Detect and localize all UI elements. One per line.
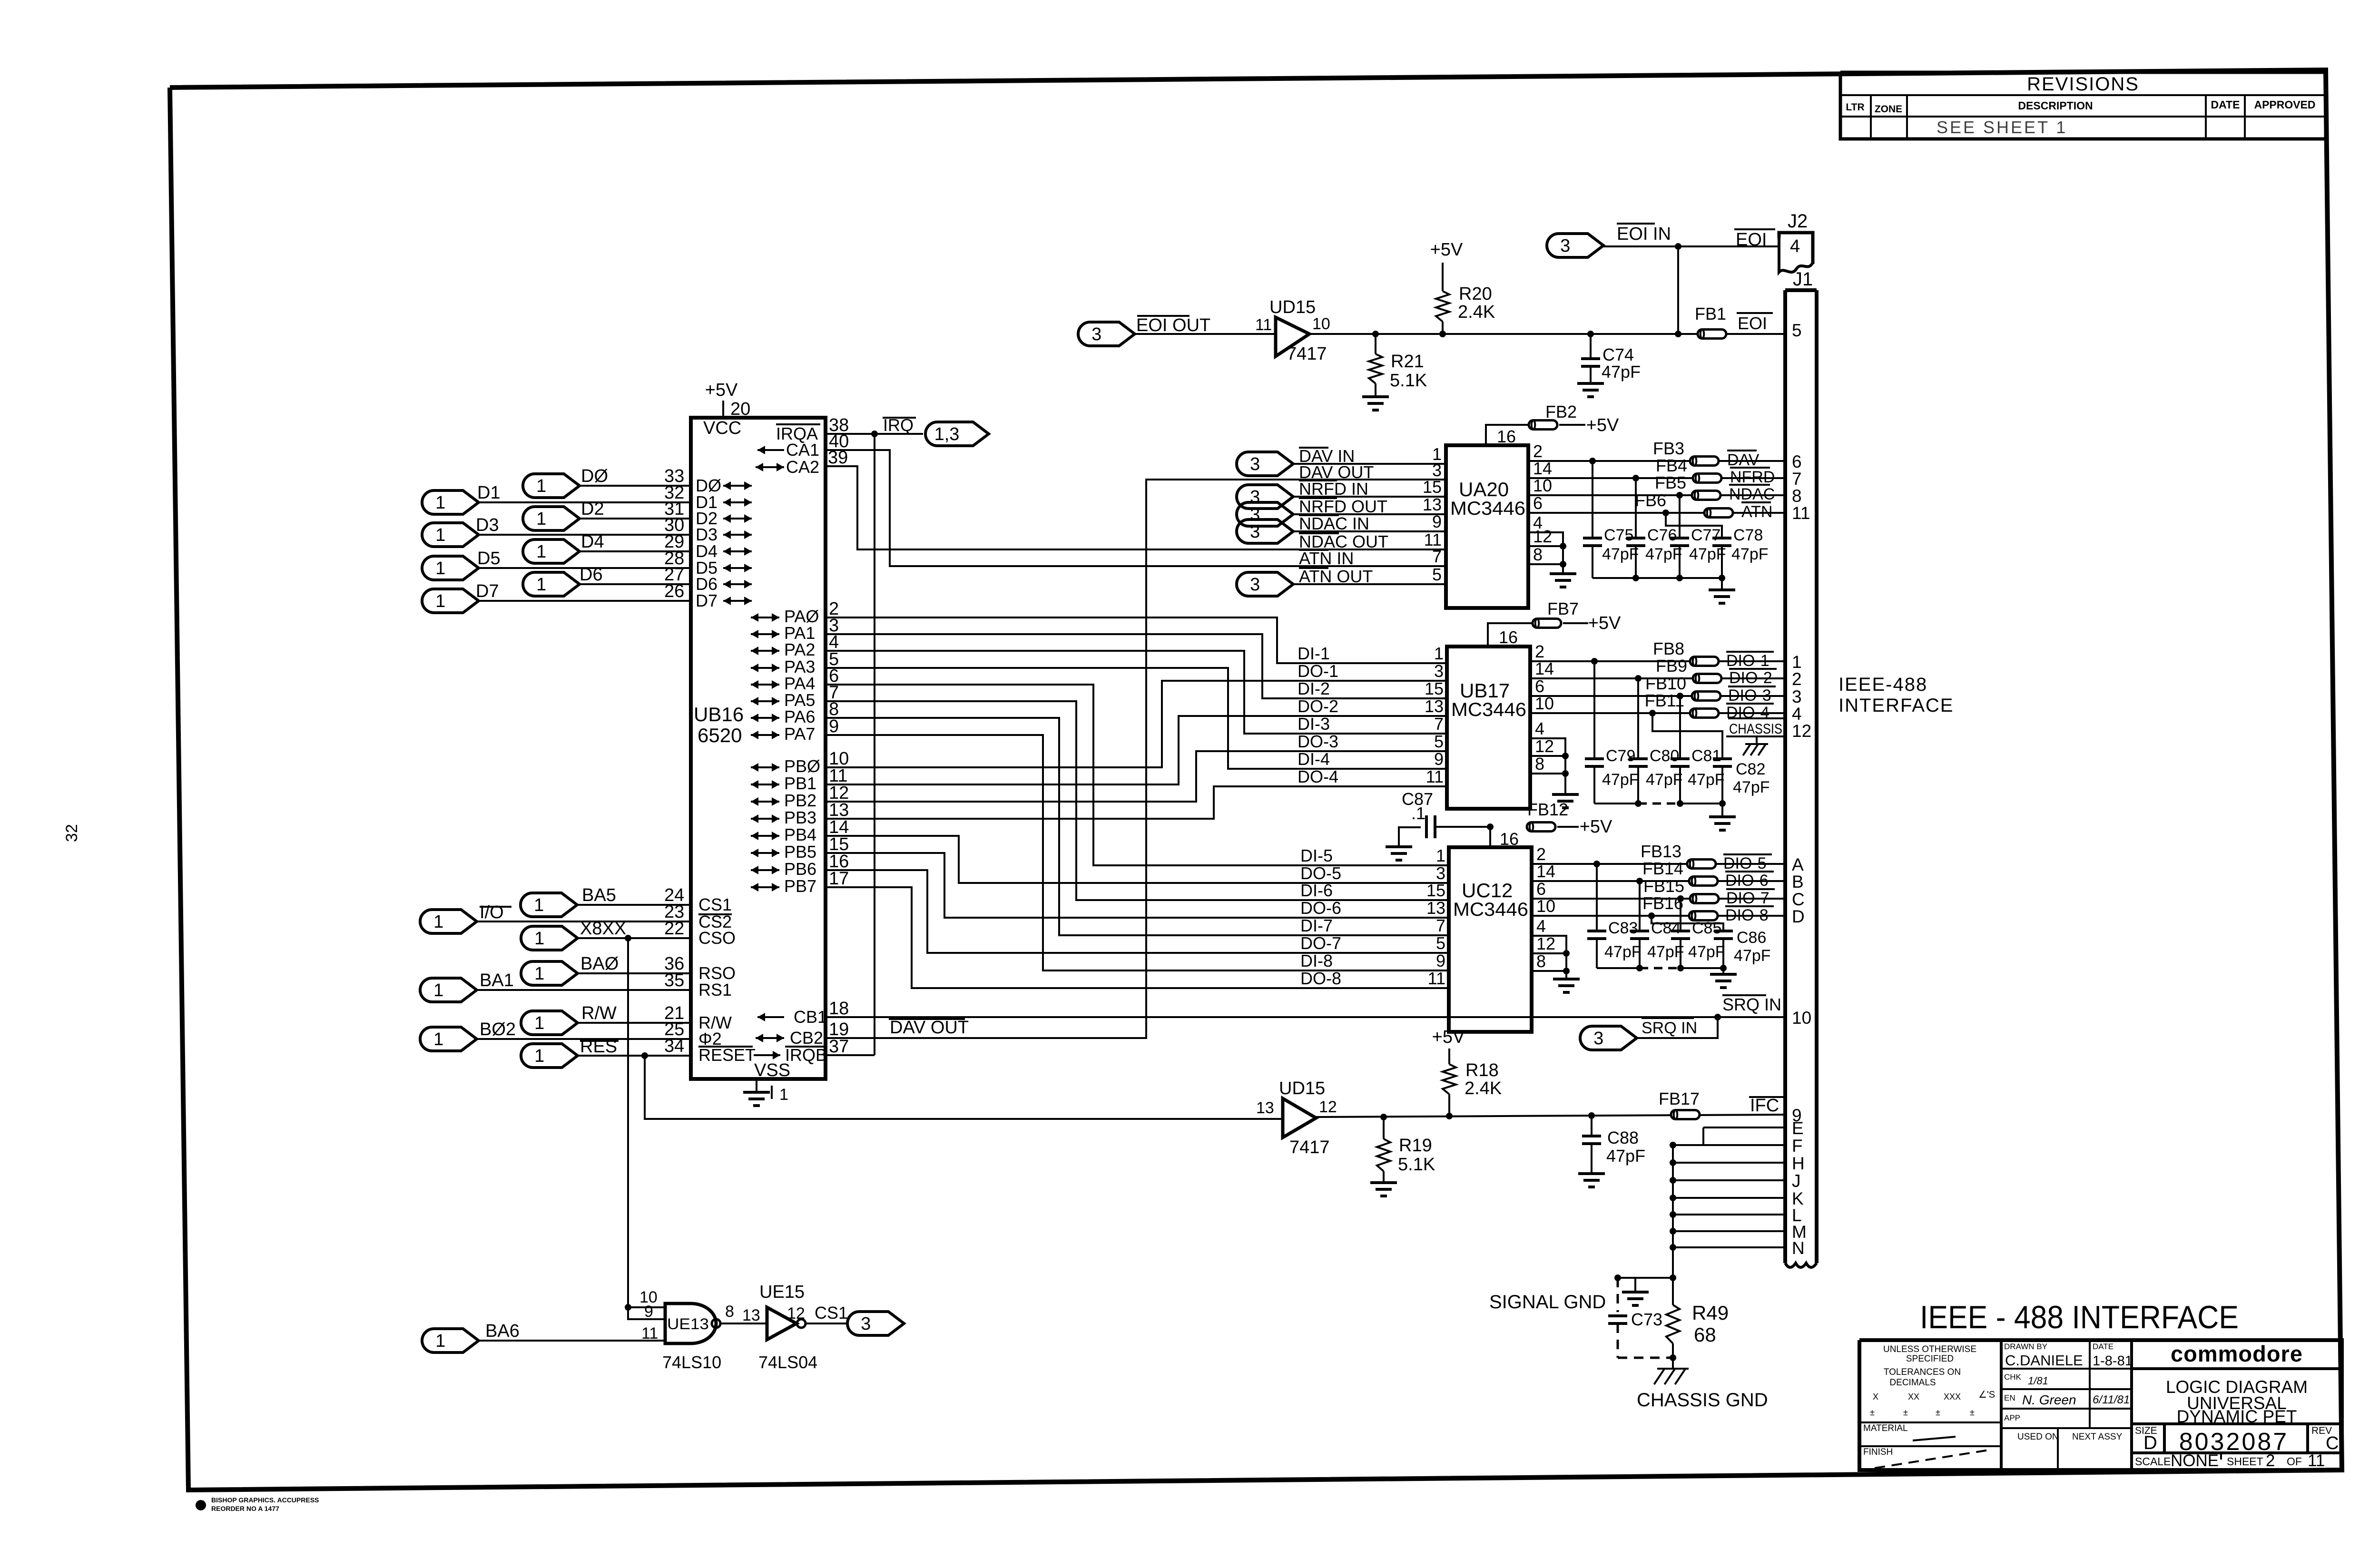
svg-text:IEEE-488: IEEE-488 — [1838, 674, 1927, 695]
svg-text:CSO: CSO — [698, 928, 736, 948]
svg-text:20: 20 — [730, 399, 750, 419]
NRFD OUT label — [1299, 497, 1337, 499]
wire X8XX drop to UE13 — [628, 938, 665, 1319]
CB2 port label — [756, 1037, 784, 1039]
capacitor C75 — [1583, 537, 1602, 539]
wire I/O CS2 — [477, 921, 691, 922]
svg-text:5: 5 — [1792, 321, 1802, 340]
C73 dashed lower — [1617, 1323, 1619, 1358]
svg-text:FB9: FB9 — [1656, 656, 1687, 676]
svg-text:2.4K: 2.4K — [1458, 302, 1495, 322]
svg-text:5.1K: 5.1K — [1390, 371, 1427, 391]
svg-text:PA7: PA7 — [784, 724, 815, 744]
svg-text:UB17: UB17 — [1460, 679, 1510, 702]
buffer UD15b triangle — [1283, 1098, 1316, 1137]
ferrite bead FB12 — [1527, 823, 1555, 832]
svg-text:3: 3 — [1792, 687, 1802, 706]
EOI IN label — [1617, 223, 1655, 225]
wire PB7 to DO-8 — [826, 887, 1449, 988]
svg-text:3: 3 — [861, 1314, 871, 1334]
DØ wire — [580, 485, 691, 487]
rev cell — [2306, 1424, 2309, 1453]
svg-text:3: 3 — [1560, 236, 1570, 256]
svg-text:DI-3: DI-3 — [1298, 714, 1330, 734]
tag 3 ATN OUT — [1237, 572, 1293, 596]
svg-text:±: ± — [1970, 1408, 1975, 1417]
wire EOI IN to J2 — [1603, 245, 1779, 247]
wire C75-C78 gnd bus — [1593, 577, 1722, 579]
ground C82 bus — [1709, 815, 1736, 818]
svg-text:MC3446: MC3446 — [1453, 899, 1528, 920]
svg-text:1: 1 — [536, 509, 546, 529]
ground UC12 — [1553, 978, 1580, 980]
NDAC IN label — [1299, 514, 1339, 516]
svg-text:UD15: UD15 — [1279, 1078, 1325, 1098]
PA2 port label — [751, 650, 779, 652]
svg-text:FB6: FB6 — [1635, 490, 1666, 510]
tag 3 NRFD IN — [1237, 485, 1293, 509]
svg-text:DI-4: DI-4 — [1298, 749, 1330, 769]
capacitor C88 — [1582, 1135, 1601, 1137]
svg-text:C74: C74 — [1602, 345, 1634, 364]
node cap bus junction — [1719, 800, 1726, 807]
svg-text:ATN IN: ATN IN — [1299, 549, 1354, 568]
wire BA0 RS0 — [578, 972, 691, 974]
wire C86 lower stem — [1722, 939, 1724, 968]
svg-text:+5V: +5V — [705, 380, 738, 400]
node R18 junction — [1446, 1113, 1453, 1119]
ferrite bead FB13 — [1687, 860, 1716, 869]
wire IRQB stub — [826, 1054, 875, 1056]
svg-text:DIO-3: DIO-3 — [1728, 686, 1771, 705]
wire UB17 pin to J1 DIO-1 — [1530, 660, 1785, 662]
svg-text:EN: EN — [2004, 1393, 2015, 1402]
svg-text:22: 22 — [664, 919, 684, 939]
svg-text:PB2: PB2 — [784, 791, 816, 810]
IFC label — [1749, 1096, 1785, 1098]
svg-text:DO-1: DO-1 — [1298, 661, 1338, 681]
tag 3 EOI OUT — [1078, 322, 1135, 346]
svg-text:CB1: CB1 — [794, 1007, 827, 1027]
svg-text:8: 8 — [1535, 754, 1544, 774]
IC UC12 box — [1449, 847, 1532, 1032]
EOI label at J1 pin5 — [1737, 312, 1773, 314]
PA4 port label — [751, 684, 779, 686]
wire UB17 pin8 — [1530, 773, 1565, 774]
svg-text:FB8: FB8 — [1653, 639, 1684, 658]
svg-text:3: 3 — [1593, 1029, 1603, 1049]
DIO-8 label — [1725, 905, 1774, 907]
svg-text:CS1: CS1 — [815, 1303, 848, 1323]
wire gnd bus row — [1673, 1179, 1785, 1181]
node UC12 pin12 — [1563, 950, 1570, 957]
svg-text:DAV OUT: DAV OUT — [890, 1018, 969, 1038]
resistor R20 — [1436, 291, 1449, 322]
wire C88 to gnd — [1591, 1144, 1593, 1174]
svg-text:11: 11 — [1792, 503, 1810, 523]
svg-text:MATERIAL: MATERIAL — [1863, 1423, 1908, 1433]
wire NRFD OUT — [1293, 513, 1446, 515]
svg-text:REVISIONS: REVISIONS — [2027, 74, 2139, 95]
wire R19 to gnd — [1383, 1171, 1385, 1183]
node UE13 pin10 junction — [625, 1304, 631, 1311]
svg-text:FB14: FB14 — [1642, 859, 1683, 878]
wire C86 route — [1652, 916, 1723, 931]
svg-text:D: D — [1792, 907, 1805, 926]
CA1 label — [757, 449, 784, 451]
svg-text:DO-5: DO-5 — [1300, 863, 1341, 883]
wire R/W — [578, 1022, 691, 1024]
wire PB3 to DO-4 — [826, 786, 1447, 819]
mid row2 — [2001, 1388, 2132, 1390]
wire C75 lower stem — [1592, 546, 1593, 578]
PA7 port label — [751, 734, 779, 736]
svg-text:PB3: PB3 — [784, 808, 816, 827]
RES label — [580, 1040, 619, 1042]
ferrite bead FB5 — [1692, 491, 1720, 500]
wire UC12 pin12 — [1532, 952, 1566, 954]
svg-text:FB7: FB7 — [1547, 599, 1579, 618]
material dash — [1913, 1437, 1956, 1441]
DIO-7 label — [1726, 888, 1775, 890]
DAV IN label — [1299, 447, 1328, 449]
svg-text:J2: J2 — [1788, 211, 1808, 232]
capacitor C81 — [1671, 757, 1690, 760]
svg-text:+5V: +5V — [1588, 613, 1621, 633]
svg-text:1: 1 — [435, 525, 445, 545]
svg-text:±: ± — [1936, 1408, 1940, 1417]
svg-text:FB11: FB11 — [1645, 691, 1684, 710]
capacitor C86 — [1714, 930, 1733, 932]
svg-text:NDAC: NDAC — [1729, 485, 1775, 503]
wire PBØ to DO-1 — [826, 681, 1447, 767]
svg-text:6520: 6520 — [698, 724, 742, 746]
wire C75 stem — [1592, 461, 1593, 538]
svg-text:MC3446: MC3446 — [1451, 699, 1526, 720]
svg-text:47pF: 47pF — [1602, 362, 1641, 382]
wire PB4 to DO-5 — [826, 836, 1449, 883]
DIO-5 label — [1723, 853, 1772, 855]
wire pin38 IRQ — [826, 433, 923, 435]
DAV OUT label at CB2 — [889, 1018, 965, 1020]
PB3 port label — [751, 818, 779, 820]
title block v1 — [2000, 1340, 2003, 1470]
NDAC OUT label — [1299, 532, 1339, 534]
wire UE15 out — [806, 1323, 848, 1324]
capacitor C73 dashed stem — [1617, 1278, 1619, 1312]
wire CA1 — [826, 450, 1446, 566]
svg-text:D2: D2 — [581, 499, 604, 519]
node C76 junction — [1632, 475, 1639, 481]
node EOI vertical junction — [1675, 331, 1681, 337]
wire PA6 to DI-7 — [826, 718, 1449, 935]
svg-text:J: J — [1792, 1171, 1801, 1191]
tag 1 BA6 — [422, 1329, 479, 1352]
tag 1 DØ input — [523, 474, 580, 498]
D6 wire — [580, 583, 691, 585]
svg-text:UE15: UE15 — [759, 1282, 805, 1302]
svg-text:1: 1 — [534, 929, 544, 949]
wire PA7 to DI-8 — [826, 735, 1449, 970]
connector J2 flag — [1779, 233, 1813, 264]
svg-text:11: 11 — [1426, 767, 1444, 786]
svg-text:C82: C82 — [1736, 760, 1765, 778]
node gnd bus bottom — [1670, 1274, 1676, 1281]
wire C87 right — [1435, 826, 1490, 828]
node R21 junction — [1372, 331, 1379, 337]
svg-text:1: 1 — [779, 1086, 788, 1104]
svg-text:PB1: PB1 — [784, 774, 816, 793]
node cap bus junction — [1719, 575, 1725, 581]
svg-text:1: 1 — [435, 591, 445, 611]
svg-text:47pF: 47pF — [1604, 943, 1642, 961]
svg-text:C81: C81 — [1691, 747, 1721, 765]
svg-text:ZONE: ZONE — [1875, 104, 1902, 115]
svg-text:BØ2: BØ2 — [480, 1019, 516, 1039]
DAV OUT label — [1299, 463, 1328, 465]
wire C85 lower stem — [1680, 939, 1681, 968]
wire +5V to R20 — [1442, 263, 1444, 291]
svg-text:47pF: 47pF — [1647, 943, 1684, 961]
svg-text:FB13: FB13 — [1641, 842, 1681, 861]
svg-text:5: 5 — [1432, 565, 1442, 584]
wire E stub — [1703, 1127, 1785, 1128]
node UB17 pin12 — [1562, 753, 1569, 759]
ground C78 bus — [1709, 588, 1735, 591]
capacitor C76 — [1626, 537, 1645, 539]
svg-text:NEXT ASSY: NEXT ASSY — [2072, 1432, 2123, 1442]
wire to chassis gnd — [1672, 1358, 1674, 1369]
svg-text:PA2: PA2 — [784, 640, 815, 659]
svg-text:USED ON: USED ON — [2017, 1432, 2059, 1442]
wire E row — [1673, 1127, 1703, 1145]
node C77 junction — [1676, 492, 1683, 499]
D3 wire — [479, 534, 691, 536]
svg-text:8: 8 — [1792, 486, 1802, 506]
svg-text:+5V: +5V — [1580, 817, 1612, 837]
svg-text:DO-3: DO-3 — [1298, 732, 1338, 751]
svg-text:1-8-81: 1-8-81 — [2093, 1353, 2133, 1369]
svg-text:APPROVED: APPROVED — [2254, 98, 2315, 111]
svg-text:7417: 7417 — [1287, 344, 1327, 364]
ferrite bead FB11 — [1690, 709, 1719, 718]
IRQA label — [776, 423, 820, 425]
ferrite bead FB17 — [1671, 1110, 1700, 1119]
wire C83 stem — [1596, 864, 1598, 931]
svg-text:47pF: 47pF — [1734, 947, 1771, 965]
svg-text:47pF: 47pF — [1689, 545, 1726, 563]
ferrite bead FB4 — [1693, 474, 1721, 483]
tag 1 RES — [521, 1044, 578, 1068]
revisions col DATE — [2205, 95, 2207, 139]
wire BA1 RS1 — [477, 989, 691, 991]
wire C76 lower stem — [1635, 546, 1637, 578]
svg-text:9: 9 — [1436, 951, 1445, 970]
svg-text:7: 7 — [1432, 547, 1442, 566]
node gnd bus — [1670, 1159, 1676, 1166]
svg-text:DATE: DATE — [2211, 98, 2240, 111]
svg-text:EOI: EOI — [1738, 314, 1767, 333]
svg-text:FB10: FB10 — [1645, 674, 1686, 693]
svg-text:8: 8 — [1533, 545, 1543, 564]
svg-text:NRFD IN: NRFD IN — [1299, 479, 1368, 499]
wire PA5 to DI-6 — [826, 701, 1449, 900]
svg-text:6: 6 — [1533, 493, 1543, 513]
svg-text:MC3446: MC3446 — [1450, 498, 1525, 519]
wire C81 stem — [1679, 696, 1681, 759]
svg-text:DYNAMIC PET: DYNAMIC PET — [2177, 1407, 2297, 1426]
tag 1 D3 input — [422, 523, 479, 547]
svg-text:FINISH: FINISH — [1863, 1447, 1893, 1457]
svg-text:D3: D3 — [476, 515, 499, 535]
svg-text:47pF: 47pF — [1606, 1146, 1645, 1166]
svg-text:XXX: XXX — [1944, 1392, 1961, 1401]
svg-text:6: 6 — [1792, 452, 1802, 471]
svg-text:DIO-8: DIO-8 — [1725, 906, 1769, 924]
resistor R49 — [1672, 1278, 1674, 1305]
node gnd bus — [1670, 1195, 1676, 1201]
capacitor C82 — [1713, 757, 1732, 760]
svg-text:FB5: FB5 — [1655, 473, 1686, 492]
wire +5V to VCC — [722, 401, 724, 418]
svg-text:BISHOP GRAPHICS. ACCUPRESS: BISHOP GRAPHICS. ACCUPRESS — [211, 1496, 319, 1504]
UB17 pin16 wire — [1488, 623, 1533, 647]
ferrite bead FB1 — [1698, 330, 1726, 339]
svg-text:DI-7: DI-7 — [1300, 916, 1333, 935]
svg-text:FB17: FB17 — [1659, 1089, 1700, 1108]
DIO-3 label — [1728, 686, 1776, 687]
tag 1 BA5 — [521, 893, 577, 917]
wire CA2 — [826, 466, 1446, 549]
svg-text:47pF: 47pF — [1733, 778, 1770, 796]
svg-text:RESET: RESET — [698, 1045, 756, 1065]
wire C88 stem — [1591, 1116, 1593, 1136]
wire C76 stem — [1635, 478, 1637, 538]
wire C84 stem — [1639, 881, 1641, 931]
svg-text:10: 10 — [1792, 1008, 1811, 1028]
svg-text:13: 13 — [742, 1306, 760, 1324]
svg-text:FB15: FB15 — [1643, 876, 1684, 896]
capacitor C80 — [1629, 757, 1648, 760]
svg-text:1: 1 — [536, 476, 546, 496]
svg-text:C86: C86 — [1737, 929, 1766, 947]
wire FB7 to +5V — [1563, 622, 1588, 624]
chassis symbol J1 — [1745, 743, 1768, 745]
svg-text:4: 4 — [1536, 916, 1546, 936]
CB1 port label — [757, 1016, 784, 1018]
wire C79-C82 gnd bus — [1594, 803, 1638, 804]
UE15 bubble — [797, 1319, 806, 1328]
node cap bus junction — [1677, 800, 1683, 807]
node cap bus junction — [1676, 575, 1683, 581]
PB2 port label — [751, 801, 779, 803]
svg-text:SHEET: SHEET — [2227, 1455, 2263, 1468]
tag 3 CS1 out — [847, 1312, 904, 1335]
PB4 port label — [751, 835, 779, 837]
svg-text:1: 1 — [1792, 652, 1802, 672]
svg-text:47pF: 47pF — [1646, 771, 1683, 789]
svg-text:47pF: 47pF — [1645, 545, 1682, 563]
connector J1 bar — [1785, 288, 1817, 292]
svg-text:DIO-6: DIO-6 — [1725, 872, 1769, 890]
svg-text:±: ± — [1870, 1408, 1875, 1417]
svg-text:2: 2 — [1533, 441, 1543, 461]
svg-text:J1: J1 — [1793, 269, 1813, 290]
PA6 port label — [751, 717, 779, 719]
NDAC label — [1729, 484, 1770, 486]
used on cell — [2057, 1428, 2059, 1470]
svg-text:APP: APP — [2004, 1413, 2020, 1422]
svg-text:DI-2: DI-2 — [1298, 679, 1330, 698]
node C80 junction — [1635, 675, 1642, 682]
wire UB17 bracket gnd — [1564, 774, 1566, 794]
svg-text:11: 11 — [1255, 316, 1272, 334]
wire C83-C86 gnd bus — [1597, 967, 1640, 969]
PAØ port label — [751, 617, 779, 618]
node C78 junction — [1662, 510, 1669, 516]
svg-text:CB2: CB2 — [790, 1028, 823, 1048]
D2 wire — [580, 518, 691, 519]
ferrite bead FB16 — [1689, 911, 1718, 921]
node UA20 pin12 — [1560, 543, 1566, 549]
wire UA20 pin12 — [1528, 545, 1563, 547]
svg-text:ATN OUT: ATN OUT — [1299, 567, 1373, 586]
svg-text:DIO-1: DIO-1 — [1726, 652, 1770, 670]
svg-text:UNLESS OTHERWISE: UNLESS OTHERWISE — [1883, 1344, 1976, 1354]
wire RES RESET — [578, 1055, 691, 1057]
svg-text:1: 1 — [435, 559, 445, 578]
CS2 port label — [698, 913, 732, 915]
I/O label — [480, 906, 511, 908]
node C83 junction — [1593, 861, 1600, 867]
svg-text:D7: D7 — [696, 591, 718, 610]
DIO-1 label — [1726, 651, 1774, 653]
svg-text:68: 68 — [1694, 1323, 1716, 1346]
size cell — [2163, 1424, 2166, 1453]
svg-text:3: 3 — [1434, 661, 1444, 681]
node C73 top — [1614, 1274, 1621, 1281]
NRFD IN label — [1299, 480, 1337, 481]
svg-text:.1: .1 — [1411, 804, 1425, 823]
wire bus to gnd — [1721, 578, 1723, 590]
svg-text:1,3: 1,3 — [934, 424, 960, 444]
wire DAV IN — [1293, 463, 1446, 465]
wire gnd bus row — [1673, 1144, 1785, 1146]
svg-text:UD15: UD15 — [1269, 297, 1316, 317]
wire PA1 to DI-2 — [826, 634, 1447, 698]
D4 wire — [580, 550, 691, 552]
svg-text:BAØ: BAØ — [580, 954, 619, 974]
wire R21 to gnd — [1375, 383, 1376, 397]
wire EOI OUT to buffer — [1135, 333, 1276, 335]
IC UB16 box — [691, 418, 826, 1079]
wire UA20 pin to J1 NFRD — [1528, 477, 1785, 479]
svg-text:DESCRIPTION: DESCRIPTION — [2018, 99, 2093, 112]
node IRQ junction — [871, 431, 878, 437]
svg-text:1: 1 — [534, 1046, 544, 1066]
svg-text:NDAC IN: NDAC IN — [1299, 514, 1369, 533]
EOI label at J2 — [1734, 228, 1775, 230]
svg-text:C73: C73 — [1631, 1310, 1662, 1329]
wire UB17 pin4 — [1530, 738, 1565, 774]
wire NRFD IN — [1293, 496, 1446, 498]
svg-text:SCALE: SCALE — [2135, 1455, 2171, 1468]
svg-text:PBØ: PBØ — [784, 756, 820, 776]
svg-text:8: 8 — [1536, 951, 1546, 971]
svg-text:C78: C78 — [1733, 526, 1763, 544]
wire IFC row — [1316, 1115, 1785, 1117]
svg-text:13: 13 — [1256, 1099, 1274, 1117]
